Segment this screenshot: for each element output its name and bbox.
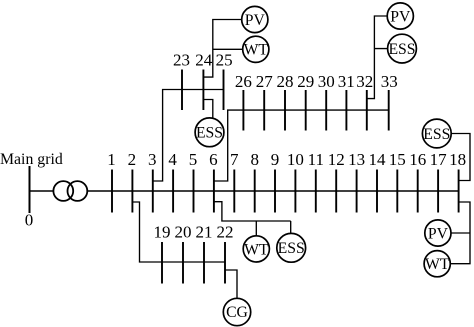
bus 24 <box>202 70 204 111</box>
svg-text:27: 27 <box>256 72 274 91</box>
svg-text:22: 22 <box>217 223 234 242</box>
svg-text:CG: CG <box>226 304 248 321</box>
svg-text:7: 7 <box>230 150 239 169</box>
bus 4 <box>172 170 174 213</box>
bus 9 <box>274 170 276 213</box>
bus 31 <box>345 90 347 131</box>
bus 13 <box>356 170 358 213</box>
bus 8 <box>254 170 256 213</box>
bus 29 <box>305 90 307 131</box>
bus 1 <box>111 170 113 213</box>
bus 16 <box>417 170 419 213</box>
bus 23 <box>181 70 183 111</box>
svg-text:0: 0 <box>25 211 34 230</box>
bus 28 <box>284 90 286 131</box>
svg-text:31: 31 <box>338 72 355 91</box>
transformer T1 <box>53 181 87 201</box>
bus 33 <box>388 90 390 131</box>
wire branch bus3 to 23-25 lateral <box>153 90 224 182</box>
svg-text:30: 30 <box>318 72 335 91</box>
node labels 1-18 <box>107 150 466 169</box>
bus 0 (main grid bus bar) <box>29 166 31 213</box>
svg-text:25: 25 <box>216 51 233 70</box>
wire bus6 to WT/ESS pair (below feeder) <box>214 202 291 221</box>
svg-text:33: 33 <box>381 72 398 91</box>
svg-text:2: 2 <box>128 150 137 169</box>
svg-text:WT: WT <box>244 42 269 59</box>
svg-text:PV: PV <box>245 12 266 29</box>
bus 10 <box>294 170 296 213</box>
bus 2 <box>131 170 133 213</box>
wire bus32 to PV/ESS stack <box>367 16 400 99</box>
wire WT drop <box>255 221 257 242</box>
svg-text:24: 24 <box>195 51 213 70</box>
bus 17 <box>437 170 439 213</box>
svg-text:ESS: ESS <box>388 41 415 58</box>
bus 15 <box>396 170 398 213</box>
svg-text:ESS: ESS <box>196 125 223 142</box>
svg-text:21: 21 <box>196 223 213 242</box>
wire bus24 to PV/WT stack <box>203 20 244 78</box>
bus 27 <box>263 90 265 131</box>
svg-text:6: 6 <box>209 150 218 169</box>
bus 21 <box>203 242 205 284</box>
svg-text:32: 32 <box>356 72 373 91</box>
svg-text:26: 26 <box>235 72 252 91</box>
bus 30 <box>325 90 327 131</box>
svg-text:29: 29 <box>297 72 314 91</box>
wire PV tap <box>444 232 470 234</box>
generator CG at bus 22 <box>223 298 250 325</box>
wire main feeder (transformer to bus 18) <box>87 190 459 192</box>
ESS unit at bus 18 <box>422 119 451 148</box>
svg-text:17: 17 <box>430 150 448 169</box>
bus 6 <box>213 170 215 213</box>
svg-text:18: 18 <box>449 150 466 169</box>
bus 32 <box>366 90 368 131</box>
svg-text:WT: WT <box>244 241 269 258</box>
svg-text:4: 4 <box>168 150 177 169</box>
svg-text:WT: WT <box>425 256 450 273</box>
node labels 23-25 <box>173 51 233 70</box>
wire bus18 to ESS (upper right) <box>444 134 470 181</box>
bus 20 <box>182 242 184 284</box>
svg-text:5: 5 <box>189 150 198 169</box>
bus 18 <box>458 170 460 213</box>
node labels 19-22 <box>154 223 234 242</box>
bus 11 <box>315 170 317 213</box>
svg-text:11: 11 <box>308 150 324 169</box>
WT unit at bus 6 <box>243 236 269 262</box>
svg-text:15: 15 <box>389 150 406 169</box>
svg-text:9: 9 <box>271 150 280 169</box>
svg-text:ESS: ESS <box>423 126 450 143</box>
PV unit at bus 24 <box>242 6 268 32</box>
svg-text:ESS: ESS <box>278 240 305 257</box>
bus 7 <box>233 170 235 213</box>
bus 25 <box>223 70 225 111</box>
svg-text:3: 3 <box>148 150 157 169</box>
WT unit at bus 18 <box>424 251 450 277</box>
ESS unit at bus 6 <box>277 233 306 262</box>
wire branch bus2 to 19-22 lateral <box>132 202 225 262</box>
WT unit at bus 24 <box>243 36 269 62</box>
svg-text:1: 1 <box>107 150 116 169</box>
wire main feeder (grid bus to transformer) <box>30 190 54 192</box>
svg-text:13: 13 <box>348 150 365 169</box>
node labels 26-33 <box>235 72 398 91</box>
ESS unit at bus 32 <box>388 34 417 63</box>
wire ESS drop <box>290 221 292 240</box>
svg-text:16: 16 <box>409 150 426 169</box>
ESS unit at bus 24 <box>195 118 224 147</box>
wire bus18 to PV/WT stack (lower right) <box>444 202 470 264</box>
svg-text:PV: PV <box>390 8 411 25</box>
svg-text:Main grid: Main grid <box>0 151 63 168</box>
wire bus24 to ESS <box>203 100 212 126</box>
svg-text:14: 14 <box>369 150 387 169</box>
wire branch bus6 to 26-33 lateral <box>214 110 389 181</box>
bus 3 <box>152 170 154 213</box>
bus 19 <box>161 242 163 284</box>
svg-text:12: 12 <box>328 150 345 169</box>
svg-text:PV: PV <box>428 225 449 242</box>
svg-text:28: 28 <box>277 72 294 91</box>
bus 12 <box>335 170 337 213</box>
wire WT tap <box>213 48 245 50</box>
bus 14 <box>376 170 378 213</box>
PV unit at bus 32 <box>387 3 413 29</box>
svg-text:8: 8 <box>250 150 259 169</box>
wire bus22 to CG <box>225 270 237 305</box>
svg-text:20: 20 <box>175 223 192 242</box>
svg-text:19: 19 <box>154 223 171 242</box>
svg-text:10: 10 <box>287 150 304 169</box>
wire ESS tap <box>374 48 402 50</box>
bus 22 <box>224 242 226 284</box>
PV unit at bus 18 <box>425 220 451 246</box>
svg-text:23: 23 <box>173 51 190 70</box>
bus 5 <box>193 170 195 213</box>
bus 26 <box>242 90 244 131</box>
